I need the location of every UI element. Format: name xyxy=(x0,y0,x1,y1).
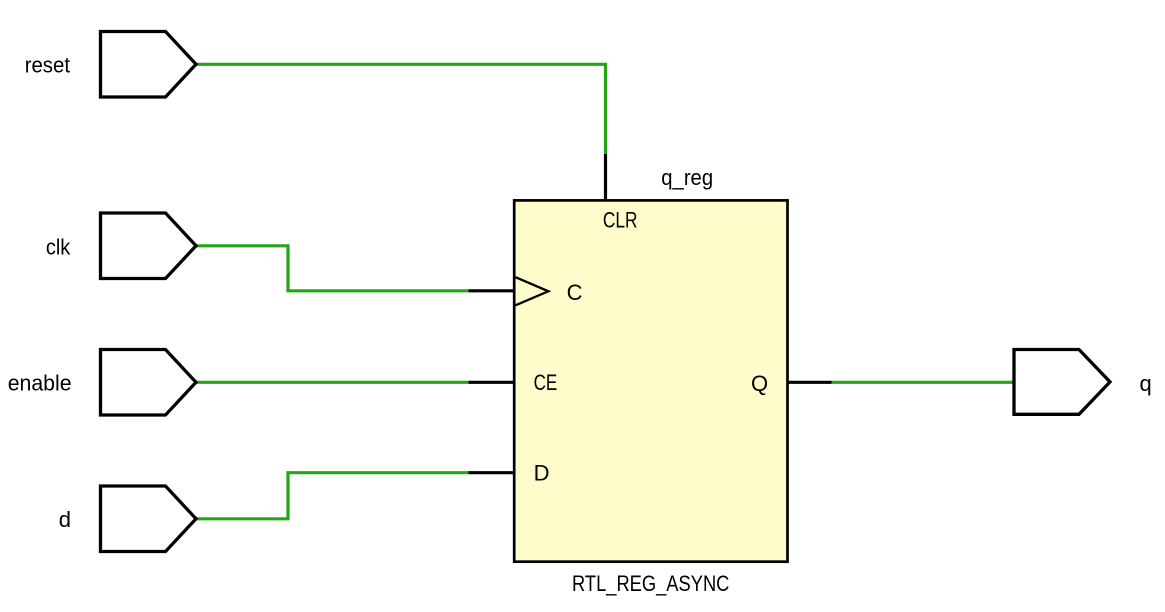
svg-text:q: q xyxy=(1140,371,1152,396)
input port clk xyxy=(101,213,197,279)
svg-text:enable: enable xyxy=(8,370,72,395)
wire reset (green segment) xyxy=(196,64,606,154)
wire clk (green segment) xyxy=(196,246,469,291)
clock pin triangle xyxy=(516,277,549,305)
svg-text:D: D xyxy=(534,461,550,486)
input port reset xyxy=(101,32,197,98)
wire enable to CE pin (black stub) xyxy=(469,381,515,384)
wire d (green segment) xyxy=(196,473,469,519)
svg-text:CLR: CLR xyxy=(603,208,638,233)
output port q xyxy=(1014,350,1110,415)
wire d to D pin (black stub) xyxy=(469,471,515,474)
svg-text:reset: reset xyxy=(25,52,70,77)
svg-text:Q: Q xyxy=(751,371,768,396)
svg-text:q_reg: q_reg xyxy=(661,165,713,190)
wire q (green segment) xyxy=(832,381,1015,384)
input port d xyxy=(101,486,197,552)
svg-text:RTL_REG_ASYNC: RTL_REG_ASYNC xyxy=(572,571,729,596)
wire clk to C pin (black stub) xyxy=(469,289,515,292)
svg-text:d: d xyxy=(59,507,71,532)
svg-text:C: C xyxy=(567,280,583,305)
wire reset to CLR pin (black stub) xyxy=(604,154,607,200)
svg-text:clk: clk xyxy=(46,235,71,260)
register q_reg body xyxy=(514,200,787,561)
wire Q pin stub (black) xyxy=(788,381,832,384)
svg-text:CE: CE xyxy=(534,370,558,395)
input port enable xyxy=(101,350,197,416)
wire enable (green segment) xyxy=(196,381,469,384)
